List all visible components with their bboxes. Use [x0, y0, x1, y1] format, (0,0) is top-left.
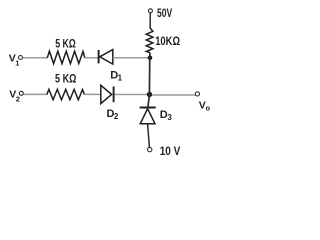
resistor R2 5KΩ: [47, 89, 85, 99]
node V2 input terminal label: [9, 89, 20, 104]
terminal V1: [19, 56, 23, 60]
supply terminal 50V: [148, 9, 152, 13]
svg-text:o: o: [206, 104, 211, 113]
wire 50V terminal to RL: [149, 13, 151, 28]
wire V1 to R1: [23, 57, 48, 59]
svg-text:3: 3: [167, 113, 172, 122]
wire D3 to 10V terminal: [148, 124, 150, 148]
svg-text:10 V: 10 V: [160, 146, 181, 158]
junction node at D1/rail: [148, 56, 153, 61]
diode D2 (triangle pointing right, cathode bar at right): [101, 85, 114, 103]
diode D3 (cathode bar on top, triangle pointing up): [140, 108, 156, 124]
wire rail RL to D2 junction: [148, 52, 150, 95]
terminal Vo: [195, 92, 199, 96]
diode D1 (cathode bar at left, triangle pointing left): [99, 50, 113, 65]
svg-text:10KΩ: 10KΩ: [155, 34, 180, 48]
wire V2 to R2: [24, 93, 48, 95]
svg-text:1: 1: [15, 59, 19, 68]
svg-text:1: 1: [118, 74, 123, 83]
supply terminal 10V: [148, 147, 152, 151]
junction node at D2/rail/Vo: [147, 92, 152, 97]
wire R2 to D2: [84, 93, 101, 95]
svg-text:5 KΩ: 5 KΩ: [55, 36, 76, 50]
svg-text:2: 2: [16, 95, 20, 104]
label D3: [160, 109, 173, 122]
wire D2 to rail: [115, 94, 150, 96]
terminal V2: [19, 91, 23, 95]
resistor RL 10KΩ (vertical): [146, 28, 153, 53]
svg-text:5 KΩ: 5 KΩ: [55, 72, 77, 86]
svg-text:50V: 50V: [157, 8, 172, 20]
label D1: [110, 70, 122, 83]
wire junction to output Vo: [152, 94, 195, 96]
wire R1 to D1: [85, 57, 98, 59]
node Vo output label: [199, 100, 211, 113]
resistor R1 5KΩ: [47, 51, 85, 63]
node V1 input terminal label: [9, 53, 20, 68]
svg-text:2: 2: [114, 112, 119, 121]
wire rail junction down to D3: [148, 95, 150, 108]
wire D1 to rail: [113, 57, 150, 59]
label D2: [107, 108, 119, 121]
